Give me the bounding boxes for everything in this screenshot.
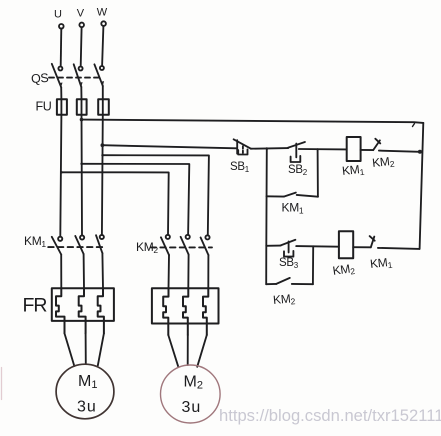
svg-text:KM1: KM1 <box>341 162 365 179</box>
wire KM2 pole2 to FR2 <box>187 255 189 289</box>
wire W branch to SB1 <box>102 145 236 148</box>
wire KM1 aux branch right vertical <box>317 149 319 197</box>
motor M2 <box>161 365 221 423</box>
wire row2 from branch vertical <box>266 245 280 247</box>
wire FR2 mid to motor M2 <box>187 335 189 365</box>
motor M1 <box>56 364 114 419</box>
node V motor2 tap <box>80 163 83 166</box>
FR1 heater element 2 <box>79 288 86 333</box>
wire FR2 left to motor M2 <box>168 335 178 367</box>
wire KM2 coil to KM1 NC contact <box>353 246 371 248</box>
wire KM2 pole1 to FR2 <box>168 255 171 288</box>
wire KM2 pole3 to FR2 <box>207 255 209 288</box>
thermal relay FR box 1 <box>52 288 114 321</box>
svg-text:FR: FR <box>23 295 48 317</box>
wire W tap to KM2 pole3 <box>103 155 209 235</box>
wire KM2 NC to right rail <box>379 151 420 152</box>
svg-text:SB3: SB3 <box>279 257 299 270</box>
pushbutton SB1 label <box>230 161 250 174</box>
wire U tap to KM2 pole1 <box>61 172 168 235</box>
wire FR1 right to motor M1 <box>98 333 104 365</box>
contactor KM1 main pole 2 <box>75 235 84 254</box>
contact KM1 NO auxiliary (seal-in) <box>284 193 318 197</box>
wire KM1 NC to rail bottom <box>378 248 420 249</box>
KM1 linkage dashed line <box>48 246 103 248</box>
node U label <box>54 9 62 21</box>
wire FR2 right to motor M2 <box>197 335 207 367</box>
wire KM1 pole3 to FR <box>101 253 104 288</box>
contactor KM1 main pole 1 <box>52 237 63 255</box>
svg-text:3u: 3u <box>77 399 96 416</box>
svg-text:KM1: KM1 <box>282 201 304 216</box>
wire KM1 pole1 to FR <box>60 255 62 289</box>
contact KM2 NO auxiliary (seal-in) <box>276 278 313 284</box>
coil KM1 label <box>341 162 365 179</box>
svg-text:KM2: KM2 <box>332 261 356 279</box>
svg-text:U: U <box>54 9 62 21</box>
FR1 heater element 1 <box>56 288 65 333</box>
thermal relay FR box 2 <box>152 288 219 323</box>
scan artifact red mark left edge <box>1 368 3 400</box>
svg-text:W: W <box>97 7 108 19</box>
contactor KM2 main pole 2 <box>181 235 190 255</box>
wire KM1 pole2 to FR <box>83 254 85 288</box>
node right rail junction <box>418 150 422 154</box>
corner ink tick <box>413 124 415 127</box>
svg-text:FU: FU <box>36 100 52 114</box>
wire SB2 to KM1 coil <box>299 148 347 150</box>
wire KM1 coil to KM2 NC contact <box>361 149 374 151</box>
node V branch junction <box>80 118 84 122</box>
fuse FU3 <box>98 99 109 115</box>
wire FR1 mid to motor M1 <box>85 333 87 364</box>
coil KM2 <box>339 231 353 258</box>
terminal V <box>79 23 84 28</box>
FR2 heater element 2 <box>183 288 188 335</box>
svg-text:KM1: KM1 <box>24 234 46 249</box>
svg-text:3u: 3u <box>182 399 201 416</box>
svg-text:QS: QS <box>31 71 49 86</box>
wire FR1 left to motor M1 <box>65 333 75 366</box>
wire KM2 aux branch bottom horizontal <box>266 283 276 285</box>
svg-text:https://blog.csdn.net/txr15211: https://blog.csdn.net/txr152111 <box>219 406 441 425</box>
svg-text:SB1: SB1 <box>230 161 250 174</box>
wire V branch to top right corner <box>82 120 424 123</box>
svg-text:KM1: KM1 <box>369 255 393 272</box>
node W motor2 tap <box>101 154 104 157</box>
QS linkage dashed line <box>49 77 100 79</box>
node U motor2 tap <box>60 171 63 174</box>
FR2 heater element 1 <box>163 288 168 335</box>
fuse FU1 <box>57 99 67 115</box>
fuse FU label <box>36 100 52 114</box>
KM2 linkage dashed line <box>151 246 212 248</box>
wire QS pole1 to fuse FU1 <box>60 87 62 99</box>
wire V terminal to QS <box>80 27 83 66</box>
terminal U <box>59 24 64 29</box>
fuse FU2 <box>77 99 87 115</box>
contactor KM2 main pole 3 <box>201 235 210 255</box>
wire KM1 aux branch left horizontal <box>267 195 284 197</box>
node control branch junction <box>266 147 269 150</box>
svg-text:SB2: SB2 <box>288 164 308 177</box>
svg-text:V: V <box>77 8 85 20</box>
FR2 heater element 3 <box>203 288 208 335</box>
switch QS label <box>31 71 49 86</box>
wire QS pole3 to fuse FU3 <box>102 86 104 99</box>
wire phase W vertical to KM1 pole3 <box>101 115 104 235</box>
svg-text:KM2: KM2 <box>371 154 395 171</box>
wire U terminal to QS <box>60 29 63 67</box>
contact KM1 aux label <box>282 201 304 216</box>
pushbutton SB3 (NO start 2) <box>280 240 295 257</box>
switch QS pole 2 <box>74 64 83 87</box>
contactor KM2 main pole 1 <box>161 235 170 255</box>
wire phase U vertical to KM1 pole1 <box>60 115 61 237</box>
wire branch vertical (after SB1) <box>265 149 268 246</box>
wire SB1 to SB2 <box>251 147 288 150</box>
contact KM2 NC (interlock) <box>373 139 380 150</box>
switch QS pole 3 <box>94 64 104 86</box>
thermal relay FR label <box>23 295 48 317</box>
contact KM1 NC (interlock) <box>370 236 375 247</box>
wire right rail <box>420 123 424 249</box>
watermark <box>219 406 441 425</box>
wire V tap to KM2 pole2 <box>82 164 190 235</box>
switch QS pole 1 <box>52 64 63 88</box>
contactor KM2 main contacts label <box>136 240 158 255</box>
pushbutton SB3 label <box>279 257 299 270</box>
node W control branch junction <box>101 143 105 147</box>
wire KM2 aux branch right vertical <box>312 246 314 284</box>
terminal W <box>101 21 106 26</box>
coil KM2 label <box>332 261 356 279</box>
pushbutton SB1 (NC stop) <box>234 139 251 154</box>
contactor KM1 main pole 3 <box>96 235 104 253</box>
node W label <box>97 7 108 19</box>
svg-text:KM2: KM2 <box>272 291 296 308</box>
pushbutton SB2 label <box>288 164 308 177</box>
wire W terminal to QS <box>102 26 103 66</box>
contact KM2 NC label <box>371 154 395 171</box>
wire KM2 aux branch left vertical <box>265 246 267 284</box>
contact KM1 NC label <box>369 255 393 272</box>
coil KM1 <box>347 137 361 161</box>
wire SB3 to KM2 coil <box>296 245 339 248</box>
pushbutton SB2 (NO start) <box>288 142 305 162</box>
wire QS pole2 to fuse FU2 <box>80 87 82 99</box>
svg-text:M1: M1 <box>78 373 97 391</box>
node V label <box>77 8 85 20</box>
svg-text:M2: M2 <box>184 374 203 392</box>
contact KM2 aux label <box>272 291 296 308</box>
wire phase V vertical to KM1 pole2 <box>81 115 84 236</box>
contactor KM1 main contacts label <box>24 234 46 249</box>
FR1 heater element 3 <box>98 288 104 333</box>
